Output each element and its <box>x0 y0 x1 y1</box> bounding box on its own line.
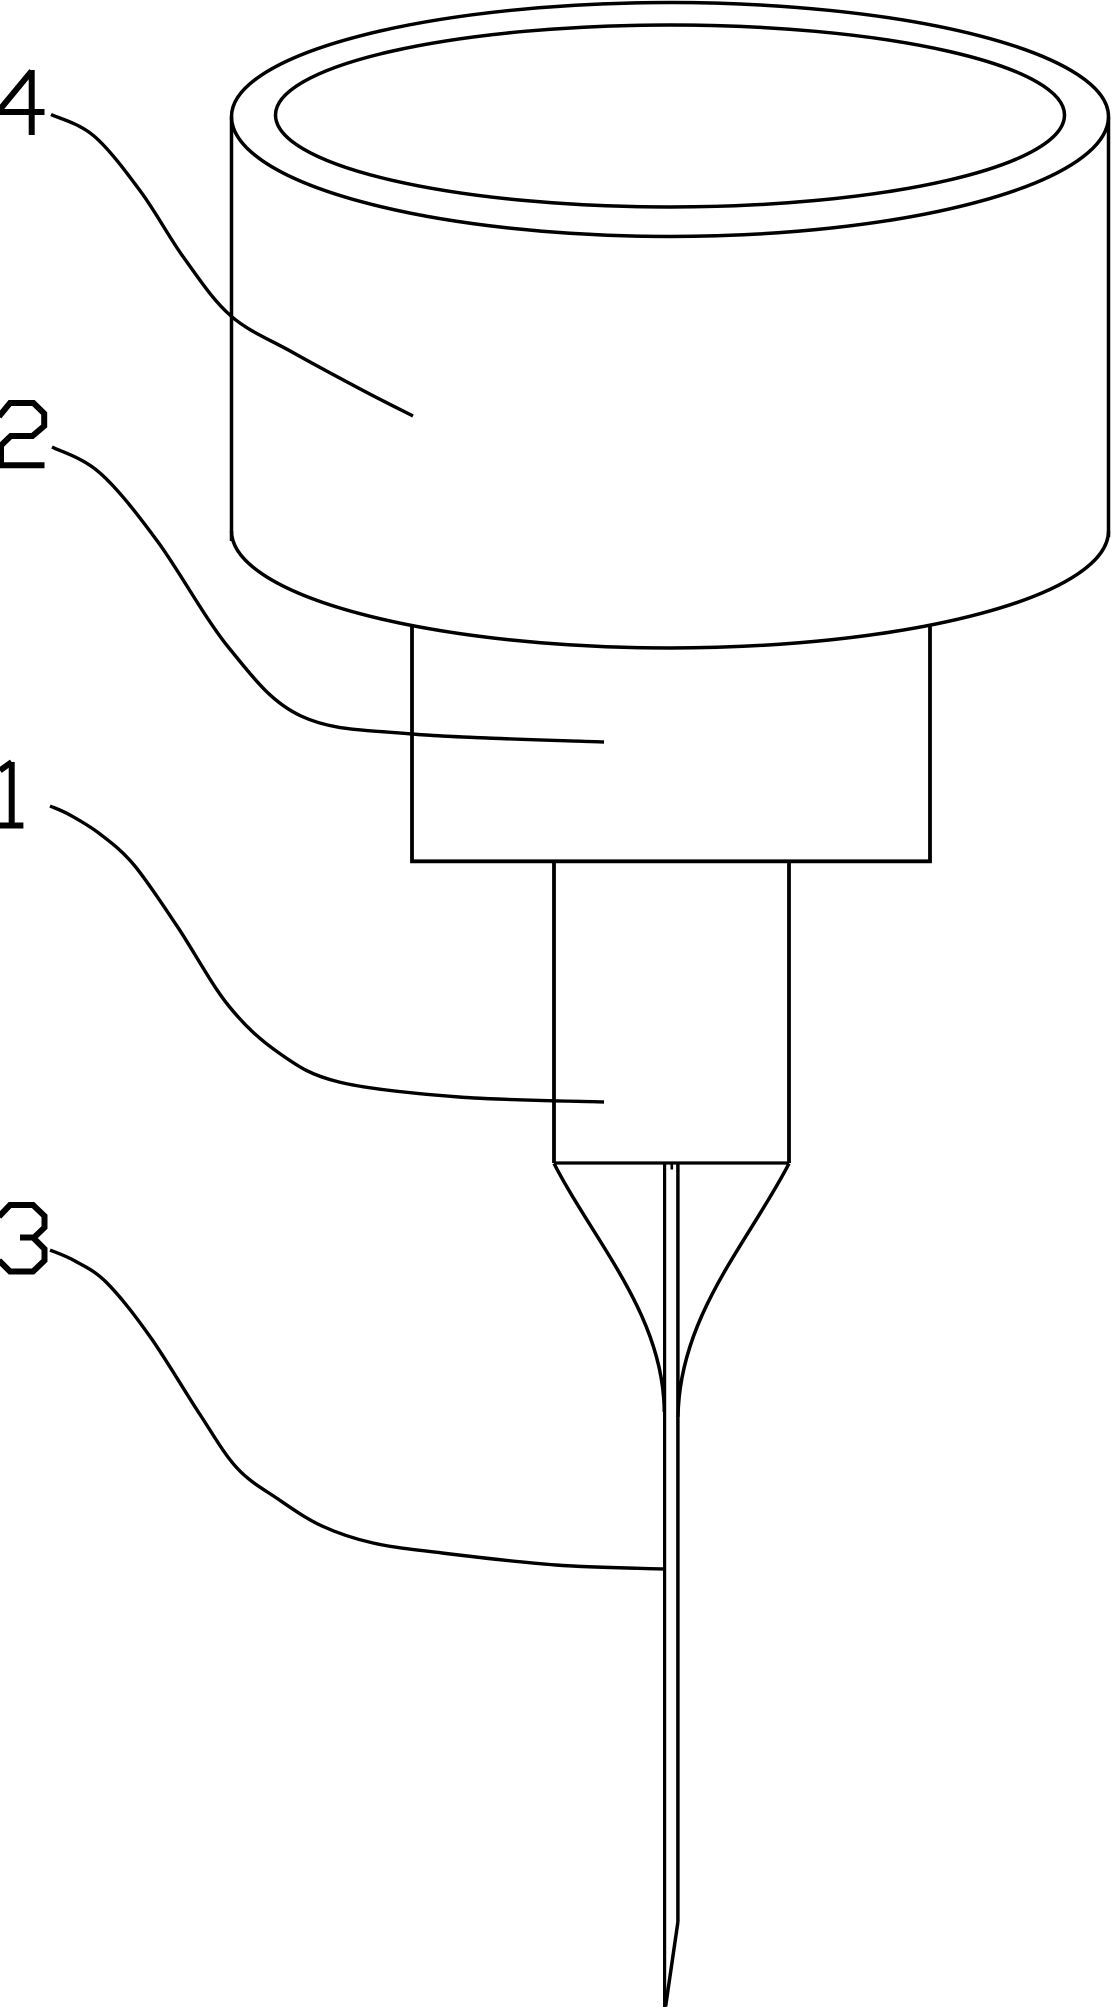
label 2 digit <box>0 403 45 465</box>
needle 3 left line <box>663 1163 666 2007</box>
cap 4 top face inner rim ellipse (bore opening) <box>276 25 1065 207</box>
leader line 2 <box>52 447 604 742</box>
cap 4 left side line <box>230 117 234 542</box>
leader line 4 <box>51 115 413 417</box>
hub shaft 1 bottom edge <box>554 1161 789 1164</box>
label 1 digit <box>0 762 23 826</box>
leader line 3 <box>50 1250 664 1569</box>
needle 3 right line <box>676 1163 680 1922</box>
cap 4 bottom front arc <box>232 531 1109 648</box>
hub shaft 1 right edge <box>787 861 791 1163</box>
taper right curve <box>678 1164 789 1418</box>
cap 4 top face outer rim ellipse <box>232 3 1109 237</box>
needle 3 bevel edge <box>666 1922 678 2007</box>
connector block 2 outline <box>412 625 930 862</box>
label 4 digit <box>0 70 45 135</box>
junction tick artifact at needle root <box>670 1165 673 1170</box>
label 3 digit <box>0 1205 45 1272</box>
hub shaft 1 left edge <box>552 861 556 1163</box>
leader line 1 <box>50 806 604 1102</box>
taper left curve <box>554 1164 664 1413</box>
cap 4 right side line <box>1107 117 1111 537</box>
